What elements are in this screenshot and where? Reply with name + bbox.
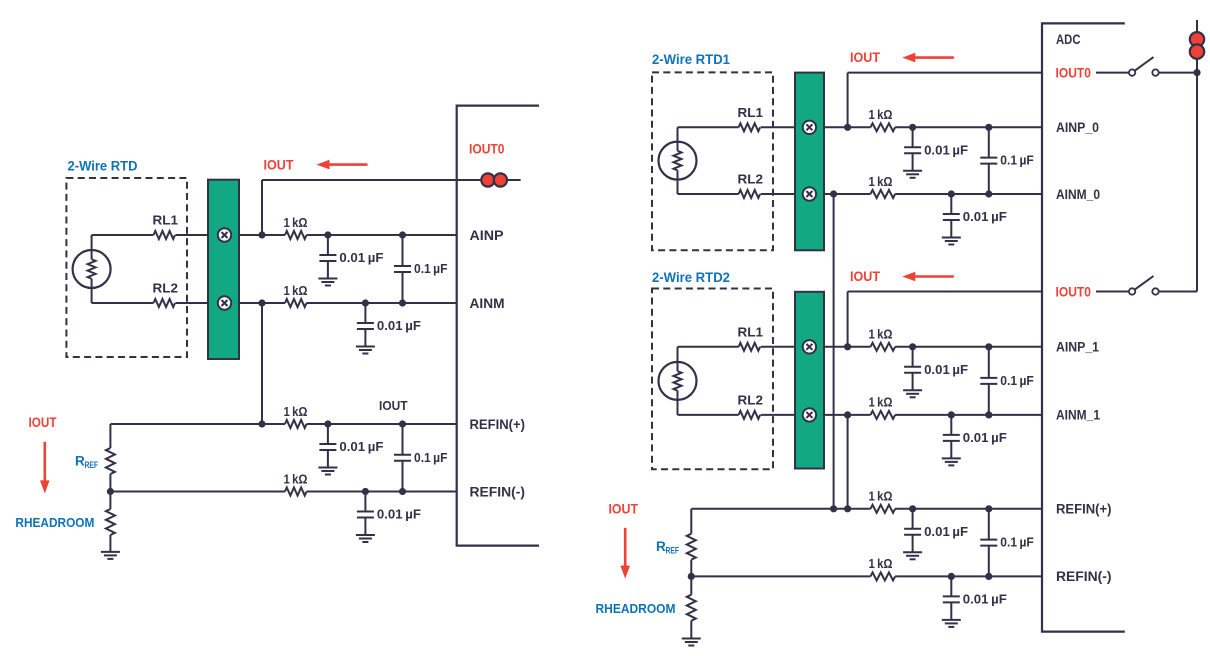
wire RL2 row left segment <box>92 302 154 304</box>
wire AINM_0 row to ADC <box>895 193 1042 195</box>
svg-text:RL2: RL2 <box>738 172 764 187</box>
terminal contact X2 (left) <box>218 296 231 309</box>
capacitor 0.01uF REFIN(-) <box>357 492 374 536</box>
capacitor 0.01uF AINM_1 ground <box>942 458 961 465</box>
wire RL1 to terminal block (RTD2) <box>761 346 795 348</box>
terminal contact X2 (RTD1) <box>803 187 816 200</box>
junction REFIN(-) 0.1uF <box>399 488 406 495</box>
svg-text:RHEADROOM: RHEADROOM <box>15 515 94 530</box>
junction AINM cap <box>362 299 369 306</box>
junction REFIN(-) cap <box>362 488 369 495</box>
svg-text:2-Wire RTD: 2-Wire RTD <box>68 159 138 174</box>
capacitor 0.01uF AINM ground <box>356 347 375 354</box>
junction REFIN(-) cap right <box>948 573 955 580</box>
junction REFIN(+) 0.1uF right <box>985 505 992 512</box>
svg-text:0.01 µF: 0.01 µF <box>377 318 421 333</box>
resistor 1k REFIN(-) <box>285 488 307 496</box>
svg-text:2-Wire RTD2: 2-Wire RTD2 <box>652 270 730 285</box>
wire RHEADROOM to ground <box>109 535 111 552</box>
RTD2 sensor <box>659 362 697 400</box>
junction AINM_1/REFIN link <box>844 411 851 418</box>
junction AINM_1 0.1uF <box>985 411 992 418</box>
switch S1 (IOUT0 row 1) <box>1129 57 1159 76</box>
resistor RREF (left) <box>106 448 115 474</box>
svg-text:AINM_0: AINM_0 <box>1056 187 1100 202</box>
ground (left) <box>101 552 120 559</box>
junction REFIN(-) / RHEADROOM <box>107 488 114 495</box>
terminal block (green, left) <box>208 180 239 359</box>
wire RHEADROOM to ground (right) <box>690 621 692 639</box>
resistor RREF (right) <box>687 534 696 560</box>
capacitor 0.01uF AINP_0 ground <box>903 171 922 178</box>
svg-text:RL2: RL2 <box>153 281 179 296</box>
wire AINP row <box>239 234 285 236</box>
capacitor 0.1uF AIN_1 pair <box>980 347 997 415</box>
svg-text:0.01 µF: 0.01 µF <box>924 524 968 539</box>
resistor 1k AINP <box>285 231 307 239</box>
wire AINM_0 node down to REFIN(+) <box>833 194 835 509</box>
capacitor 0.1uF REFIN pair right <box>980 509 997 577</box>
wire REFIN(+) row to ADC <box>307 423 457 425</box>
resistor RL1 (RTD1) <box>739 123 761 131</box>
svg-text:1 kΩ: 1 kΩ <box>284 404 308 419</box>
wire IOUT0 feed (left) <box>262 179 521 181</box>
junction REFIN(+) / AINM_1 return <box>844 505 851 512</box>
arrow IOUT down (left) <box>40 442 50 494</box>
svg-text:1 kΩ: 1 kΩ <box>869 489 893 504</box>
capacitor 0.1uF AIN_0 pair <box>980 127 997 194</box>
capacitor 0.01uF REFIN(+) right <box>904 509 921 553</box>
wire REFIN(+) down to RREF <box>109 424 111 448</box>
svg-text:AINP: AINP <box>470 228 504 243</box>
junction REFIN(-) / RHEADROOM right <box>688 573 695 580</box>
resistor 1k AINM <box>285 299 307 307</box>
wire REFIN(+) row (right) <box>691 508 870 510</box>
terminal contact X1 (RTD2) <box>803 340 816 353</box>
capacitor 0.01uF AINM_0 <box>943 194 960 238</box>
wire switch 1 to mux bus <box>1159 72 1197 74</box>
resistor RHEADROOM (left) <box>106 509 115 535</box>
wire AINP_1 row to ADC <box>895 346 1042 348</box>
wire AINM_0 row <box>824 193 871 195</box>
resistor RL2 (RTD1) <box>739 190 761 198</box>
wire RTD1 top lead <box>677 127 679 151</box>
resistor 1k AINM_1 <box>871 411 896 419</box>
svg-text:1 kΩ: 1 kΩ <box>869 327 893 342</box>
ADC box outline (right) <box>1042 23 1125 631</box>
resistor RHEADROOM (right) <box>687 595 696 621</box>
resistor RL2 (left) <box>154 299 176 307</box>
wire RREF to REFIN(-) node (right) <box>690 560 692 577</box>
junction REFIN(+) / sense line <box>258 420 265 427</box>
junction AINM 0.1uF <box>399 299 406 306</box>
junction AINM_0 cap <box>948 190 955 197</box>
wire AINP_0 row to ADC <box>895 126 1042 128</box>
junction AINM_0 0.1uF <box>985 190 992 197</box>
svg-text:0.01 µF: 0.01 µF <box>339 250 383 265</box>
svg-text:0.01 µF: 0.01 µF <box>339 439 383 454</box>
wire RL1 to terminal block (RTD1) <box>761 126 795 128</box>
wire RL2 row left segment (RTD1) <box>678 193 739 195</box>
wire RREF to REFIN(-) node <box>109 474 111 492</box>
junction REFIN(+) / AINM_0 return <box>830 505 837 512</box>
svg-text:1 kΩ: 1 kΩ <box>284 283 308 298</box>
capacitor 0.01uF AINM <box>357 303 374 347</box>
svg-text:RL2: RL2 <box>738 392 764 407</box>
wire AINM_1 node down to REFIN(+) <box>847 415 849 509</box>
arrow IOUT current direction (RTD2) <box>902 272 954 282</box>
terminal block (green, RTD1) <box>795 73 824 251</box>
resistor 1k REFIN(+) <box>285 420 307 428</box>
ground (right) <box>682 639 701 646</box>
wire AINM node down to REFIN(+) <box>261 303 263 424</box>
wire IOUT0 down to AINP_0 node <box>847 73 849 128</box>
svg-text:2-Wire RTD1: 2-Wire RTD1 <box>652 52 730 67</box>
wire RL2 to terminal block (RTD2) <box>761 414 795 416</box>
red current source dot 2 (left) <box>494 173 507 186</box>
junction REFIN(+) cap right <box>909 505 916 512</box>
arrow IOUT down (right) <box>620 528 630 579</box>
wire AINP_0 row <box>824 126 871 128</box>
wire switch 2 to mux bus corner <box>1159 291 1197 293</box>
svg-text:AINP_1: AINP_1 <box>1056 340 1099 355</box>
wire RTD1 bottom lead <box>677 170 679 194</box>
svg-text:REFIN(-): REFIN(-) <box>1056 569 1112 584</box>
svg-text:REF: REF <box>666 546 680 557</box>
svg-text:1 kΩ: 1 kΩ <box>869 174 893 189</box>
wire IOUT0 down to AINP_1 node <box>847 292 849 347</box>
svg-text:REFIN(+): REFIN(+) <box>1056 502 1112 517</box>
wire REFIN(-) row to ADC (right) <box>895 575 1042 577</box>
junction mux bus row 1 <box>1193 69 1200 76</box>
wire IOUT0 down to AINP node <box>261 180 263 235</box>
wire IOUT0 to switch 1 <box>1096 72 1129 74</box>
wire RL1 row left segment (RTD2) <box>678 346 739 348</box>
wire down to RHEADROOM <box>109 492 111 510</box>
wire AINM row to ADC <box>307 302 457 304</box>
wire down to RHEADROOM (right) <box>690 576 692 594</box>
svg-text:0.01 µF: 0.01 µF <box>377 507 421 522</box>
switch S2 (IOUT0 row 2) <box>1129 276 1159 295</box>
wire RL1 to terminal block <box>176 234 209 236</box>
wire RTD2 bottom lead <box>677 391 679 415</box>
svg-text:0.1 µF: 0.1 µF <box>1000 535 1034 550</box>
svg-text:1 kΩ: 1 kΩ <box>284 215 308 230</box>
red current source dot 2 (right) <box>1190 44 1204 58</box>
terminal contact X1 (RTD1) <box>803 121 816 134</box>
wire AINP row to ADC <box>307 234 457 236</box>
svg-text:0.01 µF: 0.01 µF <box>924 142 968 157</box>
wire AINM_1 row to ADC <box>895 414 1042 416</box>
capacitor 0.01uF REFIN(+) ground <box>318 468 337 475</box>
junction REFIN(+) 0.1uF <box>399 420 406 427</box>
svg-text:REFIN(+): REFIN(+) <box>470 417 526 432</box>
junction AINP_1/IOUT0 <box>844 343 851 350</box>
capacitor 0.01uF AINP <box>319 235 336 279</box>
red current source dot 1 (left) <box>481 173 494 186</box>
wire RL2 to terminal block <box>176 302 209 304</box>
svg-text:IOUT: IOUT <box>264 157 295 172</box>
capacitor 0.01uF REFIN(-) ground <box>356 535 375 542</box>
svg-text:0.1 µF: 0.1 µF <box>414 261 448 276</box>
left RTD dashed box <box>66 178 187 357</box>
wire REFIN(+) row to ADC (right) <box>895 508 1042 510</box>
RTD1 sensor <box>659 142 697 180</box>
wire AINM_1 row <box>824 414 871 416</box>
junction AINM_1 cap <box>948 411 955 418</box>
capacitor 0.1uF REFIN pair <box>394 424 411 492</box>
resistor 1k AINP_1 <box>871 343 896 351</box>
svg-text:0.1 µF: 0.1 µF <box>1000 153 1034 168</box>
wire RL2 to terminal block (RTD1) <box>761 193 795 195</box>
terminal contact X2 (RTD2) <box>803 408 816 421</box>
svg-text:IOUT: IOUT <box>29 415 58 430</box>
capacitor 0.01uF REFIN(-) right <box>943 576 960 620</box>
svg-text:AINM_1: AINM_1 <box>1056 408 1100 423</box>
wire IOUT0 feed (RTD1) <box>848 72 1042 74</box>
capacitor 0.01uF AINP_0 <box>904 127 921 171</box>
resistor 1k AINP_0 <box>871 123 896 131</box>
terminal contact X1 (left) <box>218 228 231 241</box>
arrow IOUT current direction (left top) <box>317 160 368 170</box>
wire IOUT0 feed (RTD2) <box>848 291 1042 293</box>
svg-text:1 kΩ: 1 kΩ <box>869 395 893 410</box>
wire REFIN(+) down to RREF (right) <box>690 509 692 534</box>
wire IOUT0 to switch 2 <box>1096 291 1129 293</box>
junction AINP_0/IOUT0 <box>844 124 851 131</box>
resistor 1k REFIN(+) right <box>871 505 896 513</box>
arrow IOUT current direction (RTD1) <box>902 53 954 63</box>
svg-text:1 kΩ: 1 kΩ <box>869 556 893 571</box>
capacitor 0.1uF AIN pair <box>394 235 411 303</box>
wire mux bus vertical <box>1196 20 1198 292</box>
resistor RL1 (left) <box>154 231 176 239</box>
resistor RL2 (RTD2) <box>739 411 761 419</box>
wire REFIN(+) row <box>110 423 285 425</box>
svg-text:0.01 µF: 0.01 µF <box>924 362 968 377</box>
wire REFIN(-) row to ADC <box>307 491 457 493</box>
RTD1 dashed box <box>652 72 773 250</box>
svg-text:0.01 µF: 0.01 µF <box>963 591 1007 606</box>
svg-text:RL1: RL1 <box>738 324 764 339</box>
svg-text:IOUT: IOUT <box>850 269 881 284</box>
wire RTD bottom lead (left) <box>91 279 93 303</box>
svg-text:REFIN(-): REFIN(-) <box>470 484 526 499</box>
svg-text:IOUT0: IOUT0 <box>469 141 505 156</box>
capacitor 0.01uF AINP_1 ground <box>903 390 922 397</box>
svg-text:0.01 µF: 0.01 µF <box>963 209 1007 224</box>
junction AINP_0 cap <box>909 124 916 131</box>
capacitor 0.01uF AINM_0 ground <box>942 238 961 245</box>
RTD sensor (left) <box>73 250 111 288</box>
svg-text:R: R <box>75 454 85 469</box>
junction AINP/IOUT0 <box>258 231 265 238</box>
junction AINM/REFIN link <box>258 299 265 306</box>
junction AINP_0 0.1uF <box>985 124 992 131</box>
svg-text:RL1: RL1 <box>738 105 764 120</box>
RTD2 dashed box <box>652 289 773 470</box>
svg-text:0.1 µF: 0.1 µF <box>414 450 448 465</box>
junction REFIN(+) cap <box>324 420 331 427</box>
junction AINP cap <box>324 231 331 238</box>
wire RTD2 top lead <box>677 347 679 371</box>
svg-text:IOUT0: IOUT0 <box>1056 284 1092 299</box>
resistor RL1 (RTD2) <box>739 343 761 351</box>
svg-text:AINP_0: AINP_0 <box>1056 120 1099 135</box>
junction REFIN(-) 0.1uF right <box>985 573 992 580</box>
capacitor 0.01uF REFIN(-) right ground <box>942 620 961 627</box>
wire RL1 row left segment (RTD1) <box>678 126 739 128</box>
svg-text:IOUT: IOUT <box>850 50 881 65</box>
capacitor 0.01uF AINM_1 <box>943 415 960 459</box>
svg-text:IOUT: IOUT <box>609 502 639 517</box>
svg-text:R: R <box>656 539 666 554</box>
capacitor 0.01uF REFIN(+) right ground <box>903 552 922 559</box>
wire REFIN(-) row (right) <box>691 575 870 577</box>
red current source dot 1 (right) <box>1190 32 1204 46</box>
capacitor 0.01uF AINP ground <box>318 279 337 286</box>
junction AINM_0/REFIN link <box>830 190 837 197</box>
svg-text:0.01 µF: 0.01 µF <box>963 430 1007 445</box>
svg-text:1 kΩ: 1 kΩ <box>869 107 893 122</box>
svg-text:1 kΩ: 1 kΩ <box>284 471 308 486</box>
wire RL2 row left segment (RTD2) <box>678 414 739 416</box>
junction AINP_1 0.1uF <box>985 343 992 350</box>
svg-text:AINM: AINM <box>470 296 505 311</box>
resistor 1k REFIN(-) right <box>871 572 896 580</box>
wire RL1 row left segment <box>92 234 154 236</box>
svg-text:RHEADROOM: RHEADROOM <box>596 601 676 616</box>
wire AINM row <box>239 302 285 304</box>
svg-text:0.1 µF: 0.1 µF <box>1000 373 1034 388</box>
wire AINP_1 row <box>824 346 871 348</box>
svg-text:REF: REF <box>85 460 99 471</box>
terminal block (green, RTD2) <box>795 292 824 469</box>
junction AINP_1 cap <box>909 343 916 350</box>
svg-text:IOUT: IOUT <box>379 398 408 413</box>
wire REFIN(-) row <box>110 491 285 493</box>
junction AINP 0.1uF <box>399 231 406 238</box>
capacitor 0.01uF REFIN(+) <box>319 424 336 468</box>
wire RTD top lead (left) <box>91 235 93 259</box>
svg-text:RL1: RL1 <box>153 213 179 228</box>
svg-text:ADC: ADC <box>1056 32 1081 47</box>
capacitor 0.01uF AINP_1 <box>904 347 921 391</box>
resistor 1k AINM_0 <box>871 190 896 198</box>
svg-text:IOUT0: IOUT0 <box>1056 65 1092 80</box>
ADC box outline (left) <box>457 106 539 546</box>
